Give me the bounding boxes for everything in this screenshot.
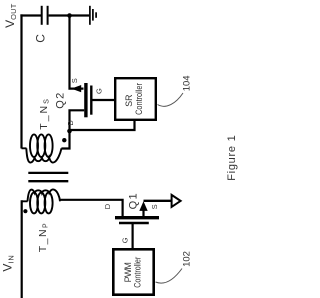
svg-text:VOUT: VOUT	[3, 3, 18, 28]
svg-text:104: 104	[181, 75, 192, 91]
phase dot secondary	[62, 138, 66, 142]
svg-text:S: S	[150, 204, 159, 209]
svg-text:T_NS: T_NS	[38, 97, 51, 130]
svg-text:G: G	[121, 237, 130, 243]
svg-text:SR: SR	[124, 95, 134, 107]
wire drain sense to SR controller	[70, 121, 135, 131]
capacitor C	[42, 6, 48, 25]
transistor Q1 source arrow	[139, 201, 147, 216]
svg-text:T_NP: T_NP	[37, 222, 50, 253]
svg-text:Figure 1: Figure 1	[226, 135, 238, 181]
wire top rail to capacitor	[20, 14, 41, 16]
transformer primary T_N_P coil	[22, 189, 60, 213]
transformer secondary T_N_S coil	[22, 134, 62, 162]
junction node top	[67, 13, 72, 18]
ground	[90, 6, 96, 25]
transformer core	[28, 173, 68, 181]
wire V_IN rail	[21, 200, 23, 298]
wire primary to Q1 drain	[60, 200, 123, 216]
svg-text:D: D	[66, 120, 75, 126]
svg-text:Controller: Controller	[132, 257, 142, 288]
wire V_OUT rail left	[20, 14, 22, 148]
svg-text:Q2: Q2	[54, 93, 66, 109]
svg-text:C: C	[34, 34, 48, 43]
junction node drain	[67, 129, 72, 134]
leader line 102	[156, 269, 183, 284]
leader line 104	[158, 93, 184, 106]
svg-text:D: D	[103, 203, 112, 209]
transistor Q2 source arrow	[71, 85, 81, 92]
svg-text:G: G	[95, 88, 104, 94]
transistor Q2 channel	[84, 83, 87, 117]
wire capacitor to ground	[49, 14, 90, 16]
wire Q2 drain lead	[61, 110, 84, 148]
output arrow	[172, 195, 181, 207]
transistor Q1 channel	[115, 216, 159, 219]
phase dot primary	[23, 209, 27, 213]
svg-text:102: 102	[181, 251, 192, 267]
wire Q2 source lead	[70, 16, 84, 89]
wire Q1 gate lead	[132, 224, 134, 249]
svg-text:Q1: Q1	[128, 193, 140, 209]
wire Q1 source out	[144, 200, 172, 202]
wire Q2 gate lead	[93, 99, 115, 101]
PWM controller box U102	[113, 249, 153, 294]
svg-text:S: S	[70, 78, 79, 83]
SR controller box U104	[115, 78, 156, 120]
transistor Q1 gate bar	[119, 222, 149, 224]
svg-text:Controller: Controller	[134, 83, 144, 115]
transistor Q2 gate bar	[90, 86, 92, 115]
svg-text:VIN: VIN	[0, 254, 15, 271]
